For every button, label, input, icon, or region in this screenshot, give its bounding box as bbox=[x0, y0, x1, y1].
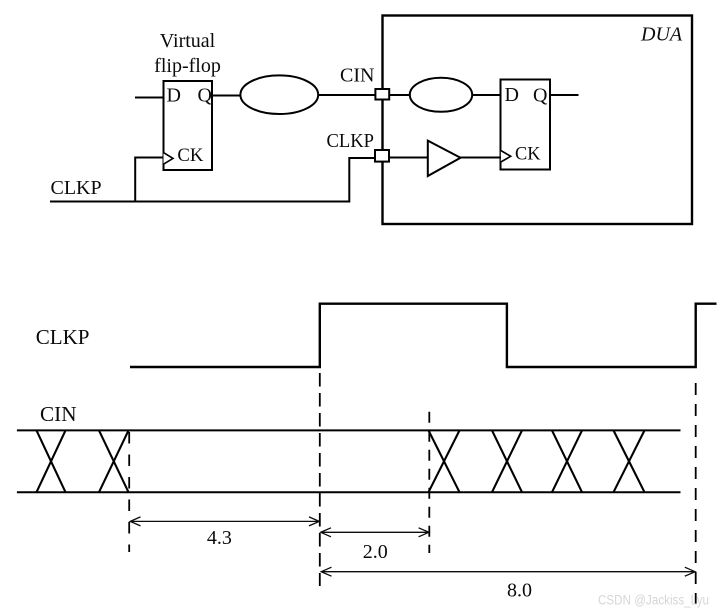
svg-text:D: D bbox=[505, 84, 519, 106]
svg-text:CLKP: CLKP bbox=[36, 325, 90, 349]
buffer B1 bbox=[428, 141, 461, 176]
svg-text:CSDN @Jackiss_Lyu: CSDN @Jackiss_Lyu bbox=[598, 593, 709, 608]
CIN bus top rail bbox=[17, 429, 681, 431]
DUA box bbox=[383, 16, 693, 225]
port square CIN bbox=[375, 89, 389, 100]
svg-text:4.3: 4.3 bbox=[207, 527, 232, 549]
dashed marker line 1 bbox=[128, 432, 130, 552]
wire B1 to CK of U2 bbox=[460, 157, 501, 159]
dashed marker line 4 bbox=[695, 383, 697, 604]
svg-text:8.0: 8.0 bbox=[507, 579, 532, 601]
wire CLKP trunk bbox=[50, 158, 376, 202]
port square CLKP bbox=[375, 150, 389, 162]
data crossing X6 bbox=[614, 430, 645, 492]
svg-text:CK: CK bbox=[177, 146, 204, 166]
wire E2 to D input of U2 bbox=[472, 94, 501, 96]
label Virtual flip-flop bbox=[154, 30, 221, 77]
svg-text:Q: Q bbox=[198, 85, 213, 107]
data crossing X5 bbox=[552, 430, 582, 492]
wire Q output of U2 bbox=[550, 94, 579, 96]
svg-text:Virtual: Virtual bbox=[160, 30, 216, 52]
svg-text:DUA: DUA bbox=[640, 24, 683, 46]
wire Q output of U1 bbox=[212, 95, 241, 97]
wire CLKP node to buffer B1 bbox=[390, 157, 428, 159]
svg-text:CIN: CIN bbox=[340, 65, 374, 87]
svg-text:CLKP: CLKP bbox=[51, 177, 102, 199]
svg-text:CK: CK bbox=[515, 145, 541, 165]
wire CIN node to E2 bbox=[390, 94, 411, 96]
data crossing X3 bbox=[429, 430, 460, 492]
svg-text:D: D bbox=[167, 85, 181, 107]
dimension arrow 4.3 bbox=[130, 517, 319, 526]
dimension arrow 2.0 bbox=[321, 528, 429, 537]
data crossing X4 bbox=[492, 430, 522, 492]
dimension arrow 8.0 bbox=[321, 567, 695, 576]
wire D input of U1 bbox=[135, 97, 164, 99]
wire E1 to CIN node bbox=[318, 94, 383, 96]
dashed marker line 3 bbox=[428, 412, 430, 553]
CLKP waveform bbox=[130, 304, 717, 367]
svg-text:CLKP: CLKP bbox=[327, 130, 375, 152]
net delay ellipse E2 bbox=[410, 78, 472, 112]
flip-flop U2 (in DUA) bbox=[501, 80, 551, 170]
clock triangle of U1 bbox=[164, 153, 174, 165]
svg-text:CIN: CIN bbox=[40, 402, 77, 426]
dashed marker line 2 bbox=[319, 373, 321, 586]
flip-flop U1 (virtual) bbox=[164, 81, 213, 170]
wire CLKP branch to CK of U1 bbox=[135, 158, 163, 202]
svg-text:flip-flop: flip-flop bbox=[154, 55, 221, 77]
data crossing X2 bbox=[99, 430, 129, 492]
clock triangle of U2 bbox=[501, 151, 511, 163]
data crossing X1 bbox=[37, 430, 66, 492]
svg-text:2.0: 2.0 bbox=[363, 541, 388, 563]
svg-text:Q: Q bbox=[533, 85, 548, 107]
net delay ellipse E1 bbox=[240, 75, 318, 114]
CIN bus bottom rail bbox=[17, 491, 681, 493]
